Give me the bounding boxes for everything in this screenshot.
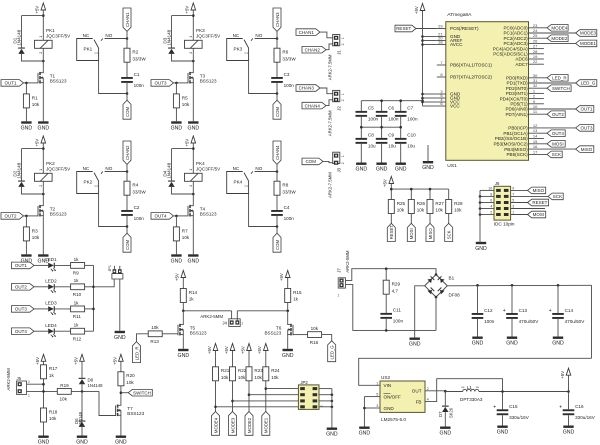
svg-text:C1: C1 (245, 184, 249, 188)
diode D8 1N4148 clamp high (79, 377, 104, 388)
wire +5V to R20 (120, 367, 122, 372)
wire mid rail to C10 (400, 127, 402, 138)
wire C9 to GND (381, 144, 383, 163)
svg-text:MOSI: MOSI (552, 142, 564, 147)
ground under T6 (282, 349, 294, 359)
wire JP2 right pin (319, 400, 332, 402)
svg-text:2: 2 (39, 52, 43, 54)
wire OUT2 to LED2 (34, 286, 48, 288)
wire rail to C5 (360, 101, 362, 111)
svg-text:SWITCH: SWITCH (133, 390, 151, 395)
svg-text:PK1: PK1 (46, 28, 55, 33)
svg-text:+5V: +5V (35, 139, 40, 147)
svg-text:PB3(MOSI/OC2): PB3(MOSI/OC2) (493, 142, 528, 147)
wire LED bus to JP1 pin2 (94, 279, 115, 287)
svg-text:CHAN1: CHAN1 (125, 12, 130, 27)
svg-text:ATmega8A: ATmega8A (447, 12, 472, 18)
wire C4 to COM rail (276, 216, 278, 227)
wire R22 node to JP2 (233, 400, 299, 402)
svg-text:1: 1 (512, 210, 514, 214)
svg-text:MODE1: MODE1 (264, 417, 269, 433)
net SCK tag at U1 pin 17 (547, 151, 562, 158)
wire CHAN3 tag to node (276, 31, 278, 38)
svg-text:GND: GND (497, 430, 509, 436)
wire +5V to R21 (215, 356, 217, 367)
svg-text:13: 13 (533, 128, 538, 133)
wire C10 to GND (400, 144, 402, 163)
junction gate/R3 (25, 215, 28, 218)
svg-text:MOSI: MOSI (409, 228, 414, 239)
wire coil to T2 drain (42, 181, 44, 203)
wire C16 to GND (568, 415, 570, 425)
junction gate/R1 (25, 82, 28, 85)
resistor R16 10k (308, 326, 322, 345)
junction cap rail (399, 99, 402, 102)
svg-text:CHAN2: CHAN2 (305, 47, 321, 52)
wire R20 to T7 drain (120, 386, 122, 403)
wire COM rail to COM tag (276, 227, 278, 234)
wire T6 gate to R16 (293, 334, 308, 336)
svg-text:1N4148: 1N4148 (166, 29, 171, 46)
svg-text:MOSI: MOSI (533, 212, 545, 217)
svg-text:R1: R1 (32, 95, 38, 100)
wire R3 to GND (25, 241, 27, 254)
wire JP1 pin1 to GND (119, 279, 121, 331)
wire J6 GND bus (479, 190, 481, 241)
svg-text:1k: 1k (293, 297, 299, 302)
wire node to R2 (126, 39, 128, 49)
svg-text:LED4: LED4 (45, 323, 57, 328)
transistor T7 BSS123 (116, 403, 145, 418)
svg-text:US2: US2 (381, 375, 391, 380)
junction gate/R5 (175, 82, 178, 85)
wire J6 pin9 to MISO (511, 189, 528, 191)
svg-text:RESET: RESET (396, 26, 411, 31)
svg-text:OUT1: OUT1 (15, 263, 27, 268)
svg-text:1k: 1k (49, 373, 55, 378)
pin 11 PD7(AIN1) of U1 (505, 109, 547, 117)
wire R11 to LED bus (85, 308, 94, 310)
svg-text:PB1(OC1A): PB1(OC1A) (503, 131, 528, 136)
svg-text:R12: R12 (73, 337, 82, 342)
resistor R20 10k (118, 372, 135, 386)
wire C7 to mid rail (400, 117, 402, 127)
wire rail to C6 (381, 101, 383, 111)
svg-text:C1: C1 (95, 184, 99, 188)
junction U1 power bus (421, 43, 424, 46)
wire R8 to C4 (276, 195, 278, 210)
junction JP2 GND bus (331, 393, 334, 396)
svg-text:BSS123: BSS123 (127, 411, 144, 416)
svg-text:+5V: +5V (185, 139, 190, 147)
wire bus stub to U1 pin (423, 101, 437, 103)
wire +5V to R23 (248, 356, 250, 367)
svg-text:C1: C1 (245, 51, 249, 55)
wire to R1 (25, 83, 27, 94)
svg-text:L1: L1 (467, 385, 473, 390)
wire node to R8 (276, 172, 278, 182)
svg-text:GND: GND (440, 431, 452, 437)
net MODE3 tag under R22 (229, 412, 237, 436)
svg-text:C4: C4 (284, 205, 290, 210)
svg-text:1N4148: 1N4148 (16, 29, 21, 46)
ground under JP2 (326, 428, 338, 438)
wire R25 to RESET tag (390, 214, 392, 224)
svg-text:J6: J6 (495, 181, 500, 186)
junction CHAN4/NO/R8 (276, 170, 279, 173)
resistor R24 10k (263, 367, 280, 381)
svg-text:+5V: +5V (560, 371, 565, 379)
svg-text:100n: 100n (393, 319, 404, 324)
svg-text:MODE1: MODE1 (580, 41, 597, 46)
svg-text:29: 29 (438, 24, 443, 29)
svg-text:PB2(/SS/OC1B): PB2(/SS/OC1B) (495, 136, 528, 141)
net MODE2 tag under R23 (245, 412, 253, 436)
svg-text:8: 8 (490, 192, 492, 196)
wire R18 to GND (43, 422, 45, 436)
net RESET tag under R25 (387, 223, 395, 241)
pin 21 GND of U1 (437, 32, 461, 40)
svg-text:33/3W: 33/3W (132, 56, 146, 61)
junction LED bus row2 (92, 286, 95, 289)
wire C12 to GND (477, 319, 479, 337)
svg-text:GND: GND (356, 167, 368, 173)
junction D2/coil/drain (42, 193, 45, 196)
svg-text:SK26: SK26 (449, 407, 454, 418)
wire bus stub to U1 pin (423, 36, 437, 38)
svg-text:PK4: PK4 (196, 161, 205, 166)
net OUT1 gate tag (1, 80, 24, 87)
svg-text:BSS123: BSS123 (200, 79, 217, 84)
net COM tag below C4 (273, 233, 281, 252)
junction OUT/D7/L1 (444, 390, 447, 393)
resistor R19 10k (57, 383, 71, 402)
wire D6 to GND (81, 427, 83, 436)
wire R19 to T7 gate net (71, 390, 99, 392)
wire node to T5 drain (182, 311, 184, 322)
wire CHAN4 tag to node (276, 164, 278, 171)
svg-text:10u: 10u (368, 144, 376, 149)
wire LED_R to R13 (137, 334, 149, 342)
junction U1 power bus (421, 35, 424, 38)
svg-text:C15: C15 (509, 404, 518, 409)
diode D2 1N4148 flyback (12, 162, 25, 187)
wire +5V to PK3 coil (192, 16, 194, 41)
svg-text:R18: R18 (49, 409, 58, 414)
svg-text:R21: R21 (221, 368, 230, 373)
junction mid rail (380, 126, 383, 129)
svg-text:10k: 10k (182, 102, 190, 107)
svg-text:MODE4: MODE4 (551, 26, 568, 31)
wire to R5 (175, 83, 177, 94)
wire D1 anode to coil bottom (22, 54, 44, 61)
wire to R7 (175, 216, 177, 227)
svg-text:1: 1 (189, 36, 193, 38)
svg-text:12: 12 (533, 123, 538, 128)
svg-text:OUT2: OUT2 (15, 285, 27, 290)
svg-text:ARK2-5MM: ARK2-5MM (345, 250, 350, 273)
svg-text:+5V: +5V (279, 273, 284, 281)
wire +5V to PK2 coil (42, 149, 44, 174)
+5V supply PK3 coil (185, 3, 196, 16)
svg-text:C13: C13 (519, 308, 528, 313)
ground under D7 (440, 427, 452, 437)
svg-text:14: 14 (533, 134, 538, 139)
junction rail/R27 (429, 188, 432, 191)
net OUT1 tag at U1 pin 10 (576, 106, 594, 113)
wire ON/OFF stub (364, 396, 380, 398)
junction JP2 GND bus (331, 400, 334, 403)
svg-text:PK3: PK3 (196, 28, 205, 33)
wire node to R4 (126, 172, 128, 182)
svg-text:COM: COM (275, 107, 280, 117)
wire J6 left pin stub (480, 195, 494, 197)
svg-text:+: + (493, 405, 496, 411)
svg-text:BSS123: BSS123 (200, 212, 217, 217)
pin 13 PB1(OC1A) of U1 (503, 128, 547, 136)
net CHAN1 tag at J1 (296, 29, 320, 36)
wire rail to R25 (390, 189, 392, 199)
ground under T1 (38, 121, 50, 131)
svg-text:C14: C14 (565, 308, 574, 313)
wire +5V to R22 (232, 356, 234, 367)
wire PK3 common to COM rail (249, 61, 277, 94)
svg-text:GND: GND (552, 341, 564, 347)
+5V supply R15 (279, 271, 290, 284)
wire D4 cathode branch (172, 148, 194, 150)
wire OUT3 to T3 gate (174, 82, 189, 84)
svg-text:17: 17 (533, 149, 538, 154)
net OUT1 tag at LED1 (12, 262, 35, 269)
svg-text:C6: C6 (388, 106, 394, 111)
junction R18/J5 pin1 (42, 390, 45, 393)
wire +5V to out rail (568, 381, 570, 392)
ground under T3 (188, 121, 200, 131)
svg-text:1: 1 (341, 155, 345, 157)
junction CHAN3/NO/R6 (276, 37, 279, 40)
junction PK2 +5V/D2 (42, 147, 45, 150)
wire J4 pin1 lead (236, 311, 238, 321)
svg-text:OUT2: OUT2 (552, 112, 564, 117)
wire +5V to R15 (287, 283, 289, 288)
ground under C15 (497, 426, 509, 436)
svg-text:GND: GND (171, 126, 183, 132)
svg-text:CHAN4: CHAN4 (305, 103, 321, 108)
+5V supply R22 (224, 344, 235, 357)
svg-text:PC6(/RESET): PC6(/RESET) (450, 26, 479, 31)
wire R29 to C11 (385, 294, 387, 313)
svg-text:GND: GND (38, 440, 50, 445)
svg-text:LM2575-5.0: LM2575-5.0 (381, 417, 406, 422)
wire CHAN2 tag to node (126, 164, 128, 171)
wire +5V to D8 (81, 367, 83, 378)
relay PK3 contact NC/NO (227, 33, 263, 60)
net LED_G tag at U1 pin 31 (576, 80, 597, 87)
junction C14/plus rail (557, 284, 560, 287)
wire R7 to GND (175, 241, 177, 254)
svg-text:10k: 10k (32, 235, 40, 240)
svg-text:R23: R23 (254, 368, 263, 373)
svg-text:10k: 10k (311, 326, 319, 331)
junction JP2 GND bus (331, 406, 334, 409)
svg-text:R5: R5 (182, 95, 188, 100)
junction C1/COM (126, 92, 129, 95)
wire U2 OUT to node (425, 390, 445, 393)
pin 14 PB2(/SS/OC1B) of U1 (495, 134, 544, 142)
svg-text:10k: 10k (221, 375, 229, 380)
resistor R1 10k (23, 94, 40, 108)
wire R16 to LED_G (322, 335, 332, 341)
wire D7 to GND (444, 412, 446, 427)
resistor R4 33/3W (124, 181, 146, 195)
wire bus stub to U1 pin (423, 105, 437, 107)
transistor T1 BSS123 (38, 70, 67, 85)
svg-text:1k: 1k (74, 300, 80, 305)
pin 31 PD1(TXD) of U1 (507, 78, 576, 86)
wire J6 left pin stub (480, 202, 494, 204)
svg-text:JP2: JP2 (300, 380, 308, 385)
wire J6 pin10 (480, 189, 494, 191)
svg-text:BSS123: BSS123 (190, 330, 207, 335)
net CHAN4 tag (273, 141, 281, 164)
svg-text:R13: R13 (150, 339, 159, 344)
wire C2 to COM rail (126, 216, 128, 227)
svg-text:J1: J1 (336, 50, 341, 55)
svg-text:CHAN3: CHAN3 (299, 86, 315, 91)
relay PK1 coil JQC3FF/5V (35, 28, 72, 54)
wire LED1 to R9 (55, 264, 71, 266)
svg-text:GND: GND (472, 341, 484, 347)
ground under T4 (188, 254, 200, 264)
+5V supply R17 (35, 354, 46, 367)
svg-text:JQC3FF/5V: JQC3FF/5V (196, 167, 221, 172)
wire D7 node to L1 (445, 391, 462, 393)
svg-text:+5V: +5V (240, 346, 245, 354)
wire J6 pin5 to RESET (511, 202, 528, 204)
svg-text:10k: 10k (60, 397, 68, 402)
wire node to SWITCH tag (121, 392, 128, 394)
wire L1 to +5V out rail (479, 391, 569, 393)
pin 15 PB3(MOSI/OC2) of U1 (493, 139, 547, 147)
svg-text:NC: NC (233, 33, 240, 38)
pin 19 ADC6 of U1 (515, 54, 543, 62)
junction U1 power bus (421, 39, 424, 42)
svg-text:PB5(SCK): PB5(SCK) (506, 152, 528, 157)
resistor R11 1k (71, 300, 85, 319)
junction U2 GND (363, 407, 366, 410)
svg-text:OUT3: OUT3 (580, 126, 592, 131)
junction U1 power bus (421, 101, 424, 104)
wire J6 left pin stub (480, 208, 494, 210)
svg-text:330u/16V: 330u/16V (575, 415, 596, 420)
svg-text:R20: R20 (126, 373, 135, 378)
wire R21 node to JP2 (216, 406, 299, 408)
svg-text:1N4148: 1N4148 (88, 383, 104, 388)
svg-text:10k: 10k (32, 102, 40, 107)
wire rail to R26 (410, 189, 412, 199)
svg-text:+5V: +5V (257, 346, 262, 354)
pin 17 PB5(SCK) of U1 (506, 149, 547, 157)
svg-text:C9: C9 (388, 133, 394, 138)
pin 7 PB6(XTAL1/TOSC1) of U1 (437, 60, 493, 68)
wire R12 to LED bus (85, 330, 94, 332)
wire R24 node to JP2 (266, 388, 299, 390)
svg-text:LED_G: LED_G (330, 345, 335, 360)
pin 1 PD3(INT1) of U1 (506, 88, 544, 96)
svg-text:33/3W: 33/3W (132, 189, 146, 194)
pin 28 PC5(ADC5/SCL) of U1 (493, 49, 544, 57)
svg-text:+5V: +5V (414, 6, 419, 14)
svg-text:GND: GND (506, 341, 518, 347)
ground under R5 (171, 121, 183, 131)
LED LED3 (45, 301, 57, 316)
resistor R14 1k (180, 289, 197, 303)
wire rail to C13 (511, 285, 513, 313)
wire R1 to GND (25, 108, 27, 121)
svg-text:2: 2 (490, 210, 492, 214)
wire R28 to SCK tag (448, 214, 450, 224)
svg-text:NC: NC (233, 166, 240, 171)
wire PK2 NO to CHAN2 node (105, 171, 127, 173)
resistor R5 10k (173, 94, 190, 108)
junction C4/COM (276, 225, 279, 228)
wire mid rail to C8 (360, 127, 362, 138)
wire plus rail to U2 VIN (359, 358, 592, 385)
svg-text:OUT4: OUT4 (15, 329, 27, 334)
svg-text:DPT330A3: DPT330A3 (460, 397, 483, 402)
net CHAN3 tag (273, 8, 281, 31)
net SWITCH tag at U1 pin 32 (547, 85, 571, 92)
wire D2 anode to coil bottom (22, 187, 44, 194)
pin 4 VCC of U1 (437, 97, 461, 105)
svg-text:GND: GND (376, 167, 388, 173)
net COM tag below C2 (123, 233, 131, 252)
transistor T5 BSS123 (178, 322, 207, 337)
svg-text:J3: J3 (336, 167, 341, 172)
junction J6 GND bus (479, 207, 482, 210)
ground under JP1 (114, 331, 126, 341)
wire OUT4 to LED4 (34, 330, 48, 332)
svg-text:J2: J2 (336, 106, 341, 111)
connector J4 ARK2-5MM (200, 314, 243, 327)
wire D1 cathode branch (22, 15, 44, 17)
pin 3 GND of U1 (437, 89, 461, 97)
svg-text:B1: B1 (449, 275, 455, 280)
pin 16 PB4(MISO) of U1 (504, 144, 575, 152)
wire U2 GND bus (363, 397, 365, 427)
wire T3 source to GND (192, 85, 194, 121)
wire +5V to PK1 coil (42, 16, 44, 41)
wire J5 pin2 to R17 node (27, 383, 44, 385)
ground under C14 (552, 337, 564, 347)
wire +5V bus left of U1 (422, 16, 424, 106)
capacitor C3 100n (271, 72, 294, 88)
junction J6 GND bus (479, 213, 482, 216)
wire node to D7 (444, 391, 446, 405)
svg-text:NO: NO (105, 166, 112, 171)
wire T7 source to GND (120, 418, 122, 436)
junction U1 power bus (421, 97, 424, 100)
svg-text:RESET: RESET (532, 200, 547, 205)
wire to D3 (171, 16, 173, 48)
svg-text:10k: 10k (454, 208, 462, 213)
svg-text:18: 18 (438, 40, 443, 45)
wire CHAN3 to J2 pin1 (320, 88, 333, 94)
ground under C16 (563, 426, 575, 436)
wire CHAN1 tag to node (126, 31, 128, 38)
svg-text:1: 1 (341, 37, 345, 39)
wire COM to J3 pin2 (323, 161, 333, 162)
